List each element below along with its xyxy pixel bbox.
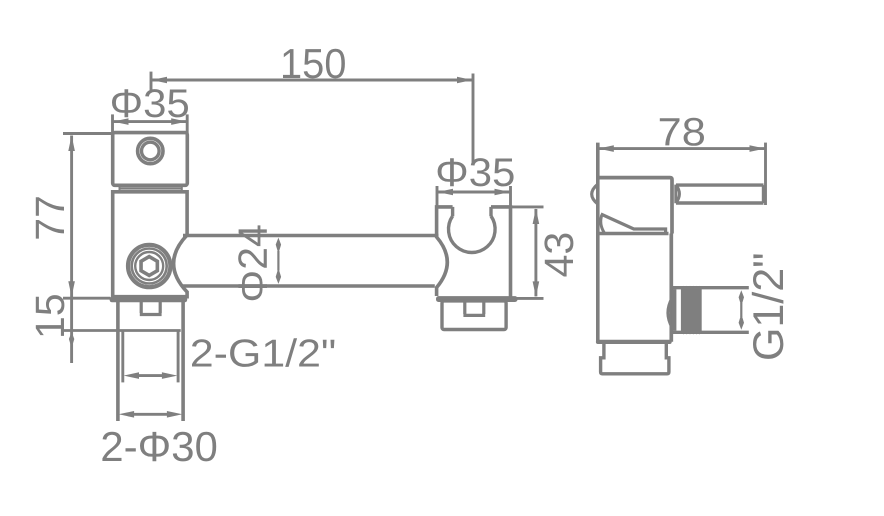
label 15 [36,295,65,336]
side view bottom flange [596,340,672,344]
label 78 [660,118,704,146]
connecting bar bottom edge [182,284,435,288]
right flange bar [436,296,518,302]
dim 78 line [598,147,766,150]
dim 77 15 line [70,136,73,364]
right holder block body [437,207,511,297]
dim 150 line [151,79,472,82]
mounting hole inner ring [142,142,160,160]
hex screw outer circle [128,245,170,287]
left tailpiece right wall [181,302,185,421]
dim 78 right tick [764,143,767,205]
dim 15 bottom arrow [69,332,74,348]
dim 77 bottom extension [63,297,110,300]
side view body right edge [669,234,673,342]
left tailpiece left wall [116,302,120,421]
dim 43 line [534,209,537,296]
lever end cap [762,185,765,203]
joint left connector [119,186,121,192]
left valve block body [113,192,187,297]
label 2-G1/2 [192,338,334,367]
side view shoulder line [598,232,669,235]
dim phi35 right tick L [436,186,439,207]
hex socket [141,257,157,276]
dim phi35 left tick L [111,114,114,133]
dim 150 right arrow [457,77,473,84]
port intersection arc [668,298,672,328]
connecting bar top edge [183,234,439,238]
label 77 [36,197,64,238]
label 2-phi30 [102,432,216,462]
port top edge [672,286,749,289]
left tailpiece notch [140,302,162,315]
dim G12 port arrows [739,290,744,330]
holder C cutout arc [449,216,496,253]
side view body left edge with 78 tick [596,143,600,342]
dim phi35 left arrow L [113,118,129,125]
mounting hole outer ring [138,138,163,163]
label phi35 left [112,89,188,117]
dim phi35 right line [437,191,511,194]
dim 150 right extension [472,74,475,165]
dim G12 left shaft [136,374,165,377]
dim 150 left tick [150,72,153,93]
dim phi35 left tick R [186,114,189,133]
side view left bulge arc [592,184,598,204]
left thread minor line left [121,331,124,383]
label G1/2 side [752,254,784,359]
dim 77 bottom arrow [68,281,75,297]
dim phi24 shaft [277,251,279,271]
holder slot right wall [489,207,492,216]
hex screw ring [132,249,167,284]
dim phi35 left arrow R [171,118,187,125]
side view top cap edge [598,178,672,234]
dim phi24 arrows [276,238,281,284]
thread start line / 15 extension [64,329,181,332]
dim 150 left arrow [152,77,168,84]
dim phi30 shaft [131,413,170,416]
dim 77 top extension [63,132,115,135]
right tailpiece [442,301,506,330]
dim phi35 right arrow L [438,189,454,196]
left escutcheon block [113,133,188,186]
holder slot left wall [451,207,454,216]
dim phi35 right tick R [509,186,512,207]
label 43 [544,234,573,277]
side view tailpiece [601,344,669,374]
label 150 [283,49,345,79]
lever underside diagonal [601,214,666,234]
dim G12 left arrows [124,372,178,379]
label phi35 right [438,158,514,186]
joint right connector [181,186,183,192]
dim 43 top arrow [533,209,540,225]
lever butt arc [601,215,605,233]
dim phi30 arrows [119,411,183,418]
dim phi35 left line [113,120,188,123]
right tailpiece notch [463,302,485,316]
dim 78 right arrow [750,145,766,152]
dim G12 port shaft [740,303,742,317]
dim 43 top extension [511,205,544,208]
lever left end arc [676,185,680,204]
port thread block [681,286,702,335]
dim 43 bottom arrow [533,281,540,297]
dim 43 bottom extension [512,297,544,300]
label phi24 [238,225,267,300]
left thread minor line right [177,331,180,383]
port bottom edge [672,331,749,334]
dim 78 left arrow [598,145,614,152]
left flange bar [110,296,188,302]
port collar fill [672,289,677,331]
lever top edge [676,183,764,186]
lever bottom edge [676,201,764,204]
dim phi35 right arrow R [495,189,511,196]
dim 77 top arrow [68,136,75,152]
joint line between blocks [119,187,182,189]
